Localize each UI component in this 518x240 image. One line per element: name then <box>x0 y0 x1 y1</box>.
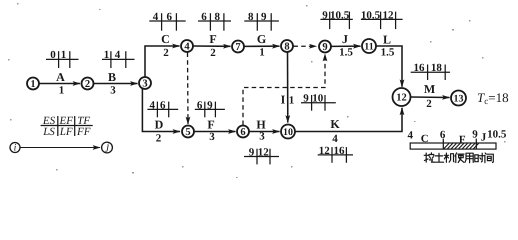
svg-text:3: 3 <box>110 85 116 97</box>
svg-text:1: 1 <box>30 79 35 90</box>
node 10 <box>281 125 295 139</box>
time label 8|9 (activity G) <box>244 11 279 31</box>
svg-text:9: 9 <box>322 42 327 53</box>
node 11 <box>362 39 376 53</box>
activity M arrow (12→13) <box>411 82 450 110</box>
time label 1|4 (activity B) <box>102 49 135 68</box>
svg-text:13: 13 <box>454 93 464 104</box>
activity I arrow (8→10) <box>281 52 295 122</box>
node 13 <box>451 91 466 106</box>
svg-text:C: C <box>161 32 170 46</box>
svg-text:2: 2 <box>85 79 90 90</box>
time label 0|1 (activity A) <box>46 49 79 68</box>
activity H arrow (6→10) <box>250 118 280 143</box>
svg-text:8: 8 <box>214 11 220 23</box>
svg-text:1: 1 <box>289 95 295 107</box>
scan noise speckles <box>8 3 506 178</box>
svg-text:9: 9 <box>207 99 213 111</box>
svg-text:6: 6 <box>201 11 207 23</box>
svg-text:6: 6 <box>197 99 203 111</box>
svg-text:F: F <box>209 32 216 46</box>
svg-text:Tc=18: Tc=18 <box>477 90 509 106</box>
total duration label Tc=18 <box>477 90 509 106</box>
time label 6|8 (activity F) <box>198 11 231 31</box>
svg-text:4: 4 <box>184 42 190 53</box>
node 1 <box>27 78 39 91</box>
svg-text:1: 1 <box>259 47 265 59</box>
svg-text:C: C <box>421 133 429 145</box>
svg-text:1: 1 <box>61 49 67 61</box>
activity F arrow (4→7) <box>194 32 231 59</box>
svg-text:G: G <box>257 32 266 46</box>
svg-text:8: 8 <box>284 42 289 53</box>
svg-text:10.5: 10.5 <box>330 9 350 21</box>
svg-text:6: 6 <box>240 127 245 138</box>
node 6 <box>237 126 249 139</box>
svg-text:4: 4 <box>153 11 159 23</box>
svg-text:I: I <box>281 93 286 107</box>
activity J arrow (9→11) <box>332 32 361 59</box>
svg-text:4: 4 <box>149 99 155 111</box>
svg-text:3: 3 <box>209 131 215 143</box>
dummy arrow 4→5 (dashed) <box>187 53 190 125</box>
legend formula ES|EF|TF over LS|LF|FF <box>41 115 93 138</box>
svg-text:3: 3 <box>142 79 147 90</box>
svg-text:K: K <box>330 117 340 131</box>
svg-text:9: 9 <box>472 129 478 141</box>
svg-text:8: 8 <box>248 11 254 23</box>
svg-text:M: M <box>424 82 435 96</box>
activity A arrow (1→2) <box>40 70 81 97</box>
time label 12|16 (activity K) <box>318 145 353 163</box>
svg-text:18: 18 <box>431 62 443 74</box>
svg-text:1.5: 1.5 <box>381 47 395 59</box>
caption 挖土机使用时间 (drawn strokes) <box>424 153 493 163</box>
dummy arrow 8→9 (dashed) <box>294 45 317 47</box>
svg-text:9: 9 <box>322 9 328 21</box>
svg-text:2: 2 <box>156 133 162 145</box>
node 5 <box>182 126 194 139</box>
svg-text:12: 12 <box>396 93 407 104</box>
node 3 <box>139 77 151 90</box>
svg-text:1: 1 <box>104 49 110 61</box>
svg-text:12: 12 <box>258 146 270 158</box>
svg-text:D: D <box>155 118 164 132</box>
activity B arrow (2→3) <box>94 70 138 97</box>
legend node j <box>102 141 113 153</box>
node 9 <box>319 41 331 54</box>
time label 4|6 (activity D) <box>147 99 178 117</box>
svg-text:i: i <box>14 143 17 154</box>
svg-text:2: 2 <box>210 47 216 59</box>
dummy arrow 6→9 (dashed) <box>243 54 325 125</box>
legend node i <box>10 143 20 154</box>
time label 16|18 (activity M) <box>411 62 450 80</box>
node 7 <box>232 41 244 54</box>
node 4 <box>181 40 193 53</box>
svg-text:5: 5 <box>185 127 190 138</box>
time label 6|9 (activity F2) <box>195 99 225 117</box>
svg-text:9: 9 <box>303 93 309 105</box>
svg-text:LF: LF <box>59 126 73 138</box>
svg-text:10.5: 10.5 <box>487 129 507 141</box>
svg-text:10: 10 <box>312 93 324 105</box>
activity G arrow (7→8) <box>245 32 280 59</box>
svg-text:6: 6 <box>440 129 446 141</box>
svg-text:6: 6 <box>167 11 173 23</box>
svg-text:FF: FF <box>76 126 91 138</box>
svg-text:10.5: 10.5 <box>361 9 381 21</box>
svg-text:0: 0 <box>50 49 56 61</box>
activity L arrow (11→12) <box>377 33 403 87</box>
activity F2 arrow (5→6) <box>195 118 236 144</box>
svg-text:4: 4 <box>332 133 338 145</box>
svg-text:2: 2 <box>163 47 169 59</box>
svg-text:3: 3 <box>259 131 265 143</box>
time label 4|6 (activity C) <box>149 11 185 31</box>
svg-text:2: 2 <box>426 98 432 110</box>
node 2 <box>82 78 94 91</box>
time label 9|10.5 (activity J) <box>320 9 352 29</box>
activity D arrow (3→5) <box>142 89 180 145</box>
svg-text:9: 9 <box>249 146 255 158</box>
svg-text:4: 4 <box>407 130 413 142</box>
svg-text:J: J <box>342 32 348 46</box>
excavator usage time-scale bar <box>407 129 506 150</box>
svg-text:1: 1 <box>59 85 65 97</box>
time label 9|12 (activity H) <box>244 146 279 164</box>
svg-text:9: 9 <box>261 11 267 23</box>
svg-text:H: H <box>256 118 266 132</box>
svg-text:11: 11 <box>364 41 373 52</box>
time label 9|10 (activity I) <box>301 93 336 111</box>
svg-text:J: J <box>481 132 487 144</box>
svg-text:7: 7 <box>235 42 240 53</box>
svg-text:16: 16 <box>414 62 426 74</box>
svg-text:4: 4 <box>115 49 121 61</box>
svg-text:12: 12 <box>319 145 331 157</box>
activity C arrow (3→4) <box>145 32 180 77</box>
svg-text:6: 6 <box>160 99 166 111</box>
svg-text:1.5: 1.5 <box>339 47 353 59</box>
activity K arrow (10→12) <box>296 108 403 145</box>
legend arrow i→j <box>21 147 101 149</box>
svg-text:B: B <box>108 70 116 84</box>
svg-text:L: L <box>383 33 391 47</box>
svg-text:A: A <box>56 70 65 84</box>
node 12 <box>393 88 411 106</box>
svg-text:12: 12 <box>383 9 395 21</box>
svg-text:16: 16 <box>334 145 346 157</box>
node 8 <box>281 40 293 53</box>
svg-text:F: F <box>207 118 214 132</box>
time label 10.5|12 (activity L) <box>361 9 403 29</box>
svg-text:10: 10 <box>283 127 293 138</box>
svg-text:LS: LS <box>42 126 55 138</box>
svg-text:F: F <box>459 134 466 146</box>
